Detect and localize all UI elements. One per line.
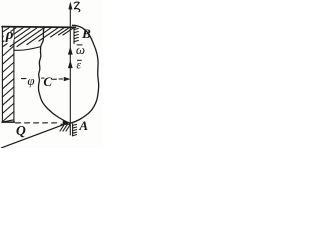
svg-text:ω: ω	[76, 42, 85, 57]
svg-text:B: B	[81, 26, 91, 41]
svg-text:Q: Q	[16, 123, 26, 138]
svg-text:ρ: ρ	[5, 27, 14, 43]
svg-text:ε: ε	[76, 57, 81, 71]
svg-text:φ: φ	[27, 73, 34, 88]
svg-text:A: A	[78, 118, 88, 133]
svg-text:C: C	[43, 74, 52, 89]
